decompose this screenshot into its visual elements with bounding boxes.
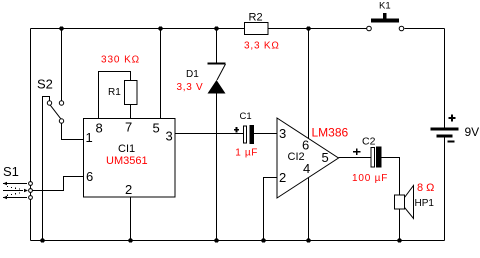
svg-text:CI1: CI1	[118, 143, 135, 155]
capacitor C1	[234, 125, 254, 144]
svg-text:3: 3	[279, 126, 286, 141]
node junction top rail / pin 5	[158, 26, 162, 30]
svg-text:UM3561: UM3561	[106, 155, 148, 167]
svg-text:8 Ω: 8 Ω	[417, 182, 434, 194]
wire C2 to HP1	[382, 158, 400, 196]
wire CI2 pin 4 to bottom rail	[308, 178, 310, 241]
svg-text:9V: 9V	[465, 125, 480, 139]
wire C1 to CI2 pin 3	[254, 133, 277, 135]
wire S2 lever	[50, 105, 60, 118]
wire right edge upper	[444, 29, 446, 128]
wire CI2 output to C2	[339, 157, 372, 159]
wire top rail to D1	[216, 29, 218, 64]
node junction top rail / S2	[59, 26, 63, 30]
svg-text:D1: D1	[186, 69, 199, 80]
svg-text:100 µF: 100 µF	[352, 173, 388, 184]
svg-text:1: 1	[86, 130, 93, 145]
wire S1 to CI1 pin 6	[33, 177, 84, 191]
wire S1 arrowheads	[3, 182, 7, 186]
svg-text:330 KΩ: 330 KΩ	[101, 55, 140, 66]
svg-text:R1: R1	[108, 87, 121, 98]
switch K1 push-button	[367, 13, 404, 31]
svg-text:2: 2	[125, 182, 132, 197]
svg-text:7: 7	[125, 120, 132, 135]
svg-text:K1: K1	[379, 1, 391, 12]
node junction top rail / pin 6 CI2	[306, 26, 310, 30]
svg-text:8: 8	[96, 121, 103, 136]
svg-text:C1: C1	[240, 111, 252, 122]
node junction bottom rail / D1	[214, 238, 218, 242]
op-amp CI2 LM386	[277, 118, 339, 198]
speaker HP1	[395, 186, 414, 219]
svg-text:3,3 KΩ: 3,3 KΩ	[244, 41, 280, 52]
svg-text:5: 5	[153, 121, 160, 136]
battery B1 9V	[431, 115, 459, 142]
capacitor C2	[353, 147, 381, 168]
node junction bottom rail / S2 pole	[40, 238, 44, 242]
svg-text:3: 3	[166, 129, 173, 144]
wire S1 actuator lines	[3, 184, 27, 198]
svg-text:S2: S2	[37, 77, 53, 92]
wire CI2 pin 2 to bottom rail	[264, 178, 278, 241]
wire left edge	[30, 29, 32, 241]
svg-text:5: 5	[322, 150, 329, 165]
svg-text:LM386: LM386	[312, 126, 349, 140]
wire S2 pole to bottom rail	[43, 97, 50, 241]
svg-text:HP1: HP1	[415, 198, 435, 209]
wire top rail to CI2 pin 6	[308, 29, 310, 139]
svg-text:3,3 V: 3,3 V	[177, 82, 204, 93]
wire CI1 pin 3 to C1	[175, 133, 244, 135]
wire S2 to CI1 pin 1	[62, 123, 84, 139]
node junction bottom rail / pin 2 CI1	[128, 238, 132, 242]
svg-text:1 µF: 1 µF	[235, 148, 258, 159]
wire D1 to bottom rail	[216, 94, 218, 241]
wire S1 dotted travel marks	[7, 186, 20, 196]
node junction top rail / D1	[214, 26, 218, 30]
wire R1 loop and pin 8	[99, 72, 131, 119]
diode D1 zener	[208, 63, 226, 94]
wire HP1 to bottom rail	[399, 209, 401, 241]
switch S2	[47, 101, 63, 123]
wire right edge lower	[444, 137, 446, 241]
wire top rail	[31, 28, 367, 30]
wire top rail to pin 5	[160, 29, 162, 119]
svg-text:6: 6	[86, 169, 93, 184]
wire R1 to pin 7	[130, 105, 132, 119]
wire S2 top drop	[61, 29, 63, 101]
wire CI1 pin 2 to bottom rail	[130, 197, 132, 241]
wire bottom rail	[31, 240, 445, 242]
svg-text:S1: S1	[3, 164, 19, 179]
svg-text:R2: R2	[249, 12, 263, 24]
svg-text:4: 4	[303, 161, 310, 176]
switch S1	[29, 182, 33, 200]
node junction bottom rail / pin 4 CI2	[306, 238, 310, 242]
svg-text:2: 2	[279, 170, 286, 185]
resistor R1	[125, 81, 138, 105]
node junction bottom rail / HP1	[397, 238, 401, 242]
svg-text:6: 6	[302, 138, 309, 153]
svg-text:C2: C2	[362, 136, 376, 148]
wire top rail right segment	[405, 28, 445, 30]
resistor R2	[245, 23, 269, 35]
IC CI1 UM3561	[84, 119, 176, 198]
node junction bottom rail / pin 2 CI2	[261, 238, 265, 242]
